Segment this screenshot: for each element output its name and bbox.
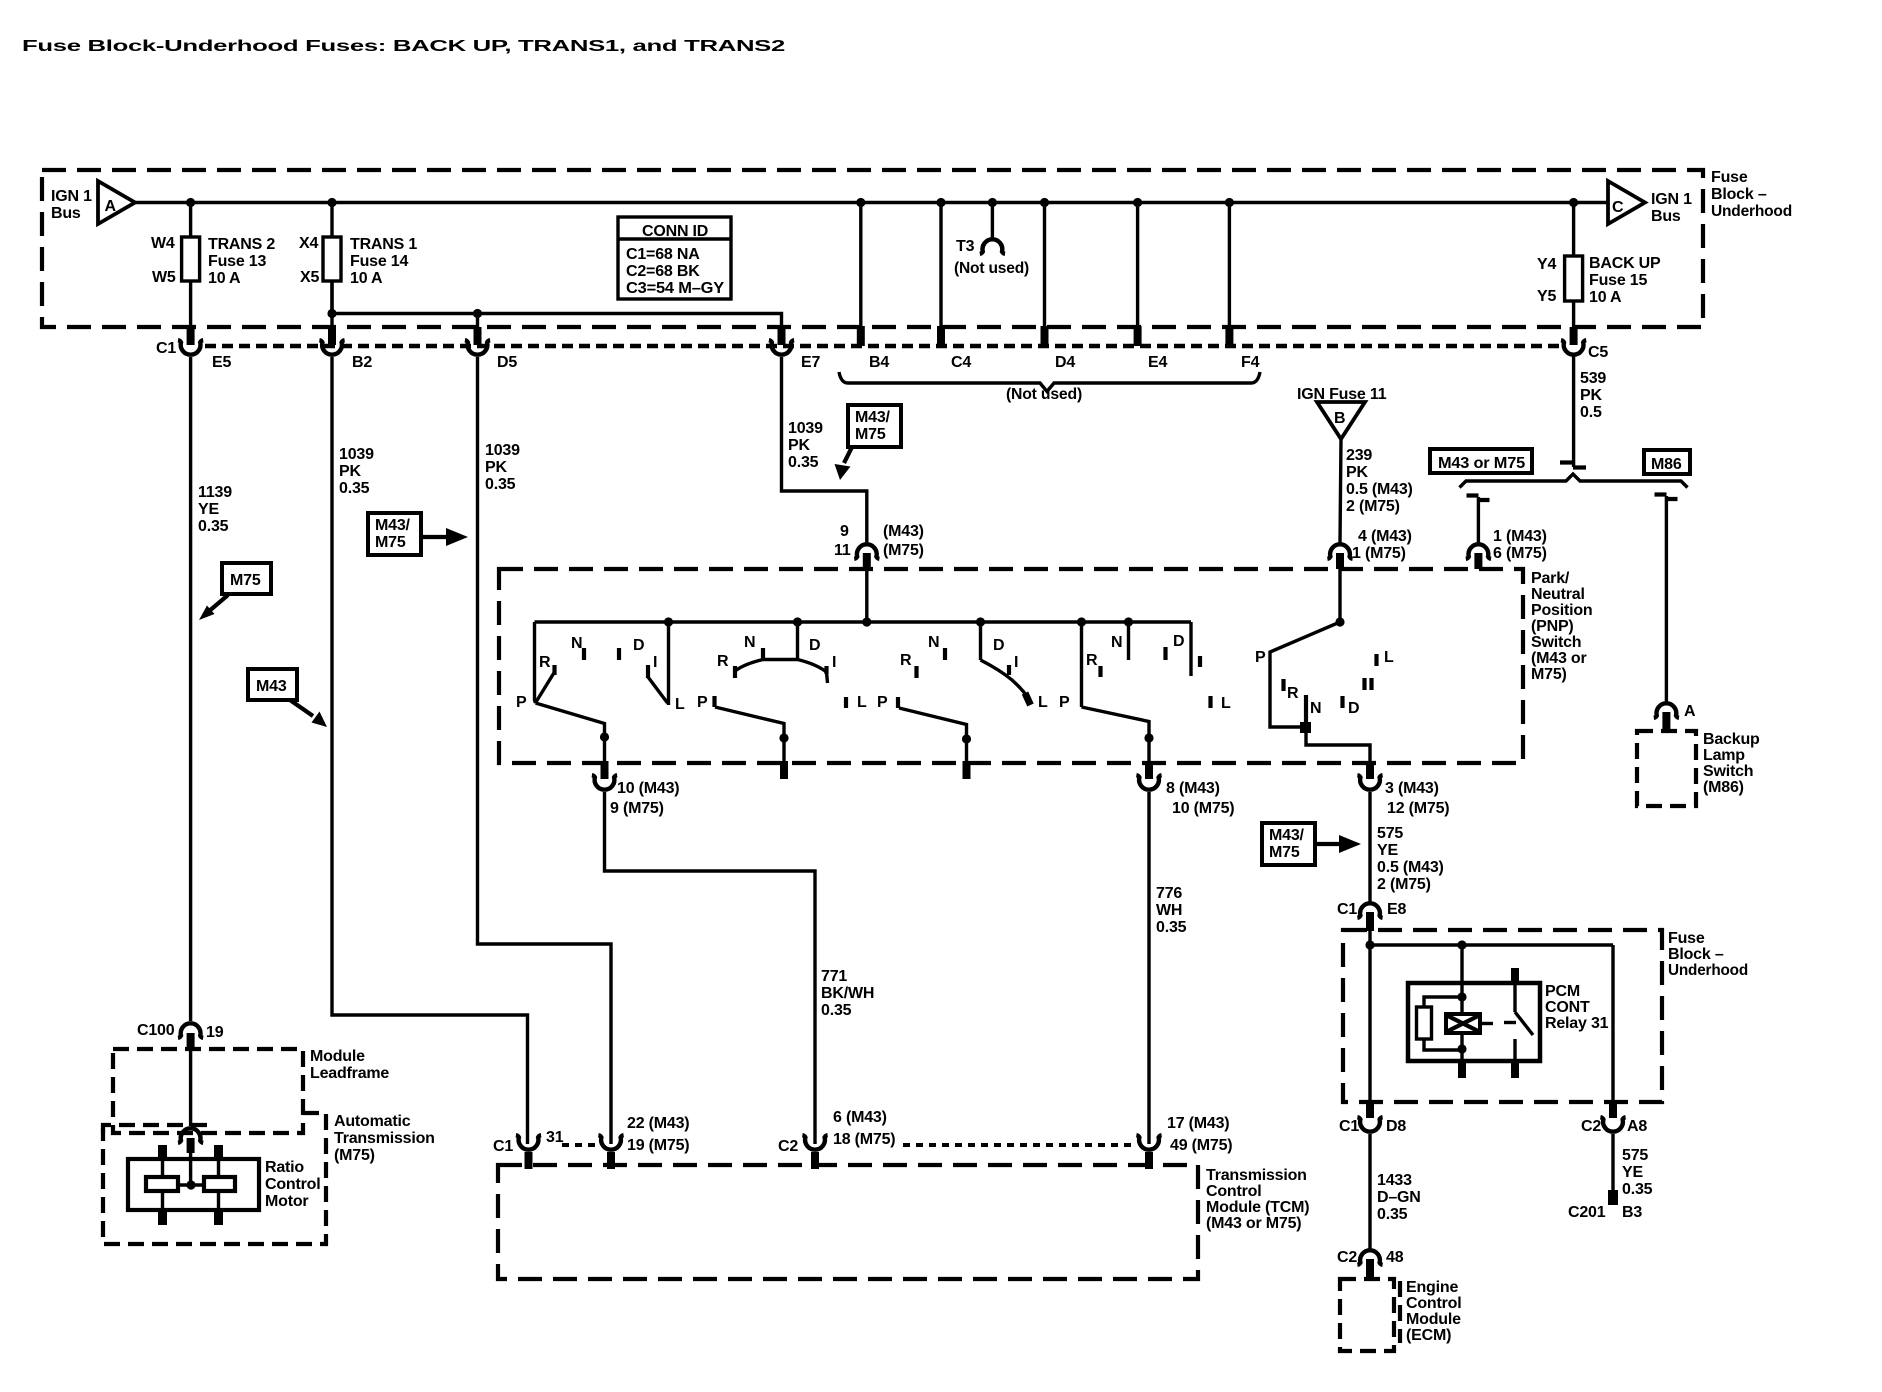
brace: B4-F4 not used xyxy=(839,372,1260,392)
PNP internal bus xyxy=(535,620,1192,623)
svg-text:Module (TCM): Module (TCM) xyxy=(1206,1199,1309,1216)
wire: jog from TRANS1 fuse right to E7 drop xyxy=(332,281,782,327)
svg-text:0.35: 0.35 xyxy=(788,454,819,471)
svg-text:0.35: 0.35 xyxy=(485,476,516,493)
TCM dashed box xyxy=(498,1165,1198,1279)
svg-text:WH: WH xyxy=(1156,902,1182,919)
svg-text:19 (M75): 19 (M75) xyxy=(627,1137,689,1154)
svg-text:1039: 1039 xyxy=(788,420,823,437)
label: Backup Lamp Switch (M86) xyxy=(1703,731,1760,796)
svg-text:11: 11 xyxy=(834,542,851,559)
svg-text:D: D xyxy=(633,637,644,654)
svg-text:0.35: 0.35 xyxy=(1156,919,1187,936)
svg-text:776: 776 xyxy=(1156,885,1182,902)
svg-text:PK: PK xyxy=(339,463,361,480)
svg-text:E5: E5 xyxy=(212,354,231,371)
svg-text:0.5 (M43): 0.5 (M43) xyxy=(1377,859,1444,876)
svg-text:10 A: 10 A xyxy=(208,270,241,287)
svg-text:M75): M75) xyxy=(1531,666,1567,683)
svg-text:(M43 or: (M43 or xyxy=(1531,650,1587,667)
svg-text:L: L xyxy=(1038,694,1048,711)
wire label 776 WH 0.35 xyxy=(1156,885,1187,936)
connector C2 / 48 xyxy=(1337,1249,1404,1266)
svg-text:X5: X5 xyxy=(300,269,319,286)
wire 539 PK from C5 down xyxy=(1572,356,1575,467)
svg-text:Underhood: Underhood xyxy=(1668,962,1748,979)
svg-text:Bus: Bus xyxy=(51,205,81,222)
svg-text:PCM: PCM xyxy=(1545,983,1580,1000)
wire label 771 BK/WH 0.35 xyxy=(821,968,874,1019)
svg-text:C2: C2 xyxy=(1581,1118,1601,1135)
wire label 1039 PK 0.35 (B2) xyxy=(339,446,374,497)
wire label 1039 PK 0.35 (E7) xyxy=(788,420,823,471)
svg-text:R: R xyxy=(539,654,551,671)
ECM box xyxy=(1340,1279,1394,1351)
splice break (PNP branch) xyxy=(1467,496,1490,501)
wire F4 (not used) xyxy=(1228,203,1231,329)
bank3 contact I xyxy=(1007,665,1011,675)
connector C1 / E5 xyxy=(156,340,231,371)
wire 575 YE from PNP 3/12 to C1/E8 xyxy=(1368,792,1371,902)
svg-text:A: A xyxy=(105,198,117,215)
wire 771 BK/WH from PNP 10/9 to TCM C2 xyxy=(605,792,816,1144)
bank2 contact N xyxy=(761,648,765,660)
brace splitting to M43/M75 and M86 branches xyxy=(1460,474,1688,488)
label: Fuse Block - Underhood (top right) xyxy=(1711,169,1792,220)
svg-text:P: P xyxy=(516,694,527,711)
svg-text:1 (M75): 1 (M75) xyxy=(1352,545,1406,562)
pin into PNP box (1/6) xyxy=(1474,553,1482,569)
svg-text:(ECM): (ECM) xyxy=(1406,1327,1451,1344)
wire 575 YE to C201 xyxy=(1611,1134,1614,1192)
wire 1039 PK from B2 down xyxy=(332,357,528,1144)
bank1 contact D xyxy=(617,648,621,660)
ratio control motor xyxy=(128,1145,259,1225)
bank5 contact L xyxy=(1374,654,1378,666)
svg-text:C2: C2 xyxy=(778,1138,798,1155)
svg-text:(Not used): (Not used) xyxy=(1006,386,1082,403)
pin C1 fuse block xyxy=(187,327,195,345)
svg-text:R: R xyxy=(1287,685,1299,702)
svg-text:31: 31 xyxy=(546,1129,564,1146)
svg-text:Bus: Bus xyxy=(1651,208,1681,225)
svg-text:Backup: Backup xyxy=(1703,731,1760,748)
svg-text:18 (M75): 18 (M75) xyxy=(833,1131,895,1148)
junction dots on PNP bus xyxy=(664,617,673,626)
TCM connector 17 (M43) / 49 (M75) xyxy=(1136,1115,1232,1154)
svg-text:Fuse 15: Fuse 15 xyxy=(1589,272,1647,289)
svg-text:539: 539 xyxy=(1580,370,1606,387)
svg-text:Fuse Block-Underhood Fuses: BA: Fuse Block-Underhood Fuses: BACK UP, TRA… xyxy=(22,38,785,55)
wire inside fuse block left leg xyxy=(1368,928,1371,1104)
PNP exit stub (bank2, unused) xyxy=(780,761,788,779)
label: Fuse Block - Underhood (relay box) xyxy=(1668,930,1748,979)
wire right leg down to A8 xyxy=(1611,945,1614,1104)
PNP exit pin 8/10 xyxy=(1145,761,1153,779)
bank5 letters xyxy=(1255,649,1394,717)
svg-text:10 A: 10 A xyxy=(1589,289,1622,306)
svg-text:R: R xyxy=(1086,652,1098,669)
svg-text:YE: YE xyxy=(1622,1164,1643,1181)
svg-text:L: L xyxy=(1384,649,1394,666)
bank5 contact I pair xyxy=(1362,678,1366,690)
svg-text:0.35: 0.35 xyxy=(339,480,370,497)
svg-text:B2: B2 xyxy=(352,354,372,371)
bank1 right vertical (L) xyxy=(667,622,670,705)
bank4 exit wire xyxy=(1082,707,1150,763)
svg-text:D: D xyxy=(1348,700,1359,717)
svg-text:Block –: Block – xyxy=(1711,186,1767,203)
svg-text:C3=54 M–GY: C3=54 M–GY xyxy=(626,280,725,297)
svg-text:C2: C2 xyxy=(1337,1249,1357,1266)
connector C1 / D8 xyxy=(1339,1117,1406,1135)
svg-text:Motor: Motor xyxy=(265,1193,308,1210)
svg-text:P: P xyxy=(1255,649,1266,666)
svg-text:12 (M75): 12 (M75) xyxy=(1387,800,1449,817)
connector (leadframe to motor) xyxy=(178,1128,203,1143)
TCM connector dotted rows xyxy=(562,1143,596,1147)
connector C1 / E8 xyxy=(1337,901,1406,918)
svg-text:R: R xyxy=(900,652,912,669)
bank1 arm I to L xyxy=(648,677,668,703)
svg-text:W5: W5 xyxy=(152,269,176,286)
bank3 exit wire xyxy=(899,708,967,763)
bank3 letters xyxy=(877,634,1048,711)
svg-text:TRANS 1: TRANS 1 xyxy=(350,236,417,253)
bank5 exit wire xyxy=(1306,731,1370,763)
TCM pins xyxy=(525,1152,533,1169)
svg-text:Control: Control xyxy=(265,1176,320,1193)
svg-text:2 (M75): 2 (M75) xyxy=(1346,498,1400,515)
svg-text:C100: C100 xyxy=(137,1022,175,1039)
svg-text:4 (M43): 4 (M43) xyxy=(1358,528,1412,545)
pin E7 xyxy=(778,327,786,345)
svg-text:YE: YE xyxy=(1377,842,1398,859)
wire E4 (not used) xyxy=(1136,203,1139,329)
wire C4 (not used) xyxy=(939,203,942,329)
wire label 1139 YE 0.35 xyxy=(198,484,232,535)
svg-text:M75: M75 xyxy=(1269,844,1300,861)
svg-text:D5: D5 xyxy=(497,354,517,371)
backup lamp switch box (M86) xyxy=(1637,731,1696,806)
wire label 539 PK 0.5 xyxy=(1580,370,1606,421)
svg-text:M75: M75 xyxy=(230,572,261,589)
svg-text:E7: E7 xyxy=(801,354,820,371)
svg-text:D8: D8 xyxy=(1386,1118,1406,1135)
svg-text:6 (M75): 6 (M75) xyxy=(1493,545,1547,562)
svg-text:(M75): (M75) xyxy=(334,1147,375,1164)
bank1 wiper arm R to P xyxy=(536,672,555,702)
connector T3 (not used) stub xyxy=(954,203,1029,278)
svg-text:D: D xyxy=(809,637,820,654)
wire label 239 PK 0.5 (M43) 2 (M75) xyxy=(1346,447,1413,515)
automatic transmission box xyxy=(103,1113,326,1244)
connector E7 xyxy=(769,340,821,371)
fuse TRANS 1 Fuse 14 (X4/X5) xyxy=(299,203,417,328)
svg-text:M43 or M75: M43 or M75 xyxy=(1438,455,1525,472)
svg-text:C1: C1 xyxy=(156,340,176,357)
svg-text:P: P xyxy=(697,694,708,711)
connector C100 / 19 xyxy=(137,1022,224,1041)
svg-text:IGN 1: IGN 1 xyxy=(51,188,92,205)
TCM connector C2 / 6 (M43) 18 (M75) xyxy=(778,1109,895,1155)
bank5 wiper arm to P xyxy=(1270,622,1340,727)
callout M43 xyxy=(248,669,327,727)
wire D4 (not used) xyxy=(1043,203,1046,329)
svg-text:B4: B4 xyxy=(869,354,889,371)
node C triangle: IGN 1 Bus (right) xyxy=(1608,181,1692,225)
svg-text:C: C xyxy=(1612,199,1624,216)
svg-text:C1: C1 xyxy=(1337,901,1357,918)
svg-text:D: D xyxy=(993,637,1004,654)
svg-text:M75: M75 xyxy=(375,534,406,551)
wire: D5 branch drop xyxy=(476,314,479,328)
pin into ECM xyxy=(1366,1259,1374,1280)
callout M43/M75 (points at D5 wire) xyxy=(368,513,468,555)
label: Transmission Control Module (TCM) (M43 or M75) xyxy=(1206,1167,1309,1232)
svg-text:10 (M43): 10 (M43) xyxy=(617,780,679,797)
bank2 common wire xyxy=(796,622,799,659)
svg-text:R: R xyxy=(717,653,729,670)
svg-text:PK: PK xyxy=(1580,387,1602,404)
bank4 right vertical (I) xyxy=(1189,622,1192,676)
bank1 exit wire to pin 10/9 xyxy=(536,703,605,763)
pin into backup lamp switch xyxy=(1662,712,1670,731)
wire label 575 YE 0.35 xyxy=(1622,1147,1653,1198)
svg-text:19: 19 xyxy=(206,1024,224,1041)
bank2 exit wire xyxy=(715,707,784,763)
svg-text:W4: W4 xyxy=(151,235,175,252)
svg-text:1039: 1039 xyxy=(339,446,374,463)
connector 1 (M43) / 6 (M75) xyxy=(1466,528,1547,562)
bank3 contact N xyxy=(943,648,947,660)
callout M43 or M75 xyxy=(1430,449,1532,473)
svg-text:L: L xyxy=(1221,695,1231,712)
PNP exit pin 3/12 xyxy=(1366,761,1374,779)
wire: PNP feed into internal bus xyxy=(865,566,868,622)
svg-text:Fuse: Fuse xyxy=(1711,169,1748,186)
svg-text:C1: C1 xyxy=(493,1138,513,1155)
svg-text:(Not used): (Not used) xyxy=(954,260,1029,277)
svg-text:F4: F4 xyxy=(1241,354,1260,371)
svg-text:I: I xyxy=(832,654,836,671)
svg-text:D4: D4 xyxy=(1055,354,1075,371)
svg-text:1039: 1039 xyxy=(485,442,520,459)
connector C2 / A8 xyxy=(1581,1117,1647,1135)
wire label 575 YE 0.5 (M43) 2 (M75) xyxy=(1377,825,1444,893)
svg-text:Block –: Block – xyxy=(1668,946,1724,963)
svg-text:Relay 31: Relay 31 xyxy=(1545,1015,1609,1032)
svg-text:0.35: 0.35 xyxy=(821,1002,852,1019)
svg-text:X4: X4 xyxy=(299,235,318,252)
pin C5 xyxy=(1570,327,1578,345)
svg-text:0.35: 0.35 xyxy=(1622,1181,1653,1198)
pin into fuse block (E8) xyxy=(1366,912,1374,931)
svg-text:A: A xyxy=(1684,703,1696,720)
svg-text:Control: Control xyxy=(1406,1295,1461,1312)
svg-text:M86: M86 xyxy=(1651,456,1682,473)
callout M86 xyxy=(1644,450,1690,474)
PNP switch dashed box xyxy=(499,569,1523,763)
connector C5 xyxy=(1561,340,1608,361)
svg-text:CONT: CONT xyxy=(1545,999,1590,1016)
svg-text:PK: PK xyxy=(1346,464,1368,481)
label: Module Leadframe xyxy=(310,1048,389,1082)
svg-text:E4: E4 xyxy=(1148,354,1167,371)
svg-text:0.5 (M43): 0.5 (M43) xyxy=(1346,481,1413,498)
svg-text:Fuse 13: Fuse 13 xyxy=(208,253,266,270)
bank4 contact R xyxy=(1098,666,1102,677)
svg-text:(M43 or M75): (M43 or M75) xyxy=(1206,1215,1301,1232)
svg-text:M43/: M43/ xyxy=(1269,827,1305,844)
svg-text:N: N xyxy=(1310,700,1321,717)
svg-text:(M75): (M75) xyxy=(883,542,924,559)
svg-text:D: D xyxy=(1173,633,1184,650)
PNP exit pin 10/9 xyxy=(601,761,609,779)
svg-text:Module: Module xyxy=(310,1048,365,1065)
bank4 contact L tick xyxy=(1208,696,1212,708)
svg-text:Lamp: Lamp xyxy=(1703,747,1745,764)
inline connector C201 / B3 xyxy=(1568,1190,1642,1221)
svg-text:17 (M43): 17 (M43) xyxy=(1167,1115,1229,1132)
TCM connector C1 / 31 xyxy=(493,1129,564,1155)
bank5 contact D xyxy=(1340,696,1344,708)
svg-text:Underhood: Underhood xyxy=(1711,203,1792,220)
bank1 contact I xyxy=(646,665,650,678)
pin B2 xyxy=(328,327,336,345)
bank2 contact L tick xyxy=(844,697,848,708)
bank1 contact N xyxy=(582,648,586,660)
svg-text:771: 771 xyxy=(821,968,847,985)
svg-text:M75: M75 xyxy=(855,426,886,443)
PNP bank 1 common wire xyxy=(535,622,536,703)
node A triangle: IGN 1 Bus (left) xyxy=(51,181,135,224)
bank3 common wire xyxy=(979,622,982,660)
svg-text:C201: C201 xyxy=(1568,1204,1606,1221)
svg-text:BACK UP: BACK UP xyxy=(1589,255,1661,272)
bank5 feed wire xyxy=(1338,566,1341,622)
splice break (M86 branch) xyxy=(1655,495,1678,500)
label: Park/Neutral Position (PNP) Switch (M43 or M75) xyxy=(1531,570,1593,683)
fuse TRANS 2 Fuse 13 (W4/W5) xyxy=(151,203,275,328)
svg-text:8 (M43): 8 (M43) xyxy=(1166,780,1220,797)
wire 239 PK from triangle B xyxy=(1340,439,1341,543)
svg-text:N: N xyxy=(744,634,755,651)
svg-text:Transmission: Transmission xyxy=(1206,1167,1307,1184)
TCM connector 22 (M43) / 19 (M75) xyxy=(598,1115,689,1154)
pin D5 xyxy=(474,327,482,345)
svg-text:Engine: Engine xyxy=(1406,1279,1458,1296)
connector 4 (M43) / 1 (M75) xyxy=(1327,528,1411,562)
svg-text:575: 575 xyxy=(1622,1147,1648,1164)
svg-text:A8: A8 xyxy=(1627,1118,1647,1135)
svg-text:0.35: 0.35 xyxy=(1377,1206,1408,1223)
wire inside leadframe xyxy=(189,1049,192,1126)
fuse block underhood (top) dashed outline xyxy=(42,170,1703,327)
svg-text:M43/: M43/ xyxy=(375,517,411,534)
svg-text:C4: C4 xyxy=(951,354,971,371)
label: Ratio Control Motor xyxy=(265,1159,320,1210)
svg-text:C1: C1 xyxy=(1339,1118,1359,1135)
connector A (backup lamp switch) xyxy=(1654,703,1696,720)
CONN ID table xyxy=(618,217,731,299)
svg-text:10 A: 10 A xyxy=(350,270,383,287)
svg-text:C5: C5 xyxy=(1588,344,1608,361)
wire 1433 D-GN down to ECM xyxy=(1368,1134,1371,1249)
svg-text:TRANS 2: TRANS 2 xyxy=(208,236,275,253)
pin into PNP box (feed) xyxy=(863,553,871,569)
svg-text:I: I xyxy=(653,654,657,671)
bank1 contact R xyxy=(552,665,556,675)
svg-text:22 (M43): 22 (M43) xyxy=(627,1115,689,1132)
pin C2 (A8) xyxy=(1609,1102,1617,1118)
wire: IGN 1 bus horizontal xyxy=(134,201,1608,204)
pin into module leadframe xyxy=(187,1033,195,1050)
svg-text:P: P xyxy=(877,694,888,711)
connector 8 (M43) / 10 (M75) xyxy=(1136,775,1234,817)
svg-text:I: I xyxy=(1014,654,1018,671)
svg-text:Y4: Y4 xyxy=(1537,256,1556,273)
svg-text:E8: E8 xyxy=(1387,901,1406,918)
svg-text:Leadframe: Leadframe xyxy=(310,1065,389,1082)
svg-text:(PNP): (PNP) xyxy=(1531,618,1574,635)
svg-text:3 (M43): 3 (M43) xyxy=(1385,780,1439,797)
module leadframe box xyxy=(113,1049,303,1133)
wire 1039 PK from D5 down to TCM 22 xyxy=(478,357,612,1144)
svg-text:C2=68 BK: C2=68 BK xyxy=(626,263,700,280)
svg-text:Ratio: Ratio xyxy=(265,1159,304,1176)
bank2 contact R xyxy=(733,666,737,678)
svg-text:BK/WH: BK/WH xyxy=(821,985,874,1002)
connector 9 (M43) / 11 (M75) at PNP feed xyxy=(834,523,924,559)
svg-text:N: N xyxy=(1111,634,1122,651)
wire 1039 PK from E7 down to PNP feed xyxy=(782,357,867,543)
svg-text:B: B xyxy=(1334,410,1345,427)
svg-text:0.5: 0.5 xyxy=(1580,404,1602,421)
junction at 477.5,313.5 (D5 branch) xyxy=(473,309,482,318)
bank4 contact I tick xyxy=(1198,656,1202,667)
svg-text:1433: 1433 xyxy=(1377,1172,1412,1189)
pin into motor xyxy=(187,1138,195,1153)
wire to backup lamp switch xyxy=(1665,496,1668,702)
connector 3 (M43) / 12 (M75) xyxy=(1357,775,1449,817)
svg-text:N: N xyxy=(928,634,939,651)
svg-text:Module: Module xyxy=(1406,1311,1461,1328)
wire 776 WH from PNP 8/10 to TCM 17 xyxy=(1147,792,1150,1144)
callout M43/M75 (points at E7 wire) xyxy=(835,405,902,480)
bank3 contact R xyxy=(914,666,918,678)
svg-text:P: P xyxy=(1059,694,1070,711)
bank4 letters xyxy=(1059,633,1231,712)
splice break at C5 wire end xyxy=(1560,463,1586,468)
svg-text:575: 575 xyxy=(1377,825,1403,842)
svg-text:C1=68 NA: C1=68 NA xyxy=(626,246,700,263)
callout M75 xyxy=(199,563,271,620)
svg-text:Transmission: Transmission xyxy=(334,1130,435,1147)
svg-text:(M43): (M43) xyxy=(883,523,924,540)
svg-text:Fuse 14: Fuse 14 xyxy=(350,253,408,270)
fuse BACK UP Fuse 15 (Y4/Y5) xyxy=(1537,203,1661,328)
svg-text:M43/: M43/ xyxy=(855,409,891,426)
svg-text:Neutral: Neutral xyxy=(1531,586,1585,603)
svg-text:D–GN: D–GN xyxy=(1377,1189,1421,1206)
label: Automatic Transmission (M75) xyxy=(334,1113,435,1164)
svg-text:B3: B3 xyxy=(1622,1204,1642,1221)
svg-text:CONN ID: CONN ID xyxy=(642,223,708,240)
svg-text:YE: YE xyxy=(198,501,219,518)
bank2 contact I xyxy=(824,666,828,674)
svg-text:Y5: Y5 xyxy=(1537,288,1556,305)
